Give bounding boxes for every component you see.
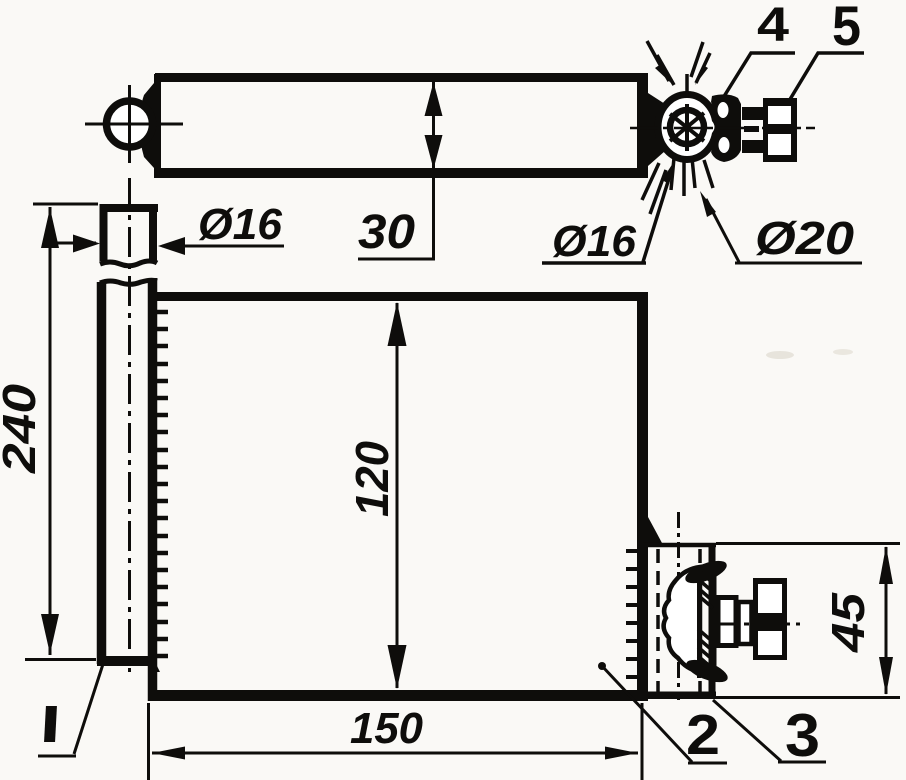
svg-text:2: 2 <box>686 703 720 767</box>
bolt shank outline <box>699 566 715 678</box>
center line through eye and rod <box>128 178 131 672</box>
left eye (lug ring) <box>107 101 153 147</box>
dimension 240 extension lines <box>25 204 98 660</box>
dimension 240 line with arrows <box>41 207 59 655</box>
break squiggle at rod head <box>100 261 157 266</box>
hex nut (front) <box>753 578 787 660</box>
cylinder body (shock absorber, top view) <box>155 73 648 178</box>
radiating finish marks above right eye <box>647 41 710 98</box>
right eye spokes <box>670 104 704 151</box>
part 4 (ball joint bushing) <box>711 94 741 162</box>
part 5 (end nut) <box>763 98 797 162</box>
left eye boss (weld fillet) <box>140 83 154 168</box>
fillet rod to plate <box>148 648 160 672</box>
leader for part 1 <box>38 661 104 756</box>
svg-text:120: 120 <box>346 441 398 517</box>
svg-text:Ø16: Ø16 <box>552 217 637 266</box>
serrated weld edge left (ticks) <box>157 312 168 656</box>
rod (piston rod, side view) <box>97 282 157 664</box>
centerline through nut <box>714 623 800 626</box>
svg-text:3: 3 <box>785 702 820 769</box>
bracket plate (part 2) <box>643 543 716 697</box>
buffer top cap arc <box>682 556 729 588</box>
main plate rectangle <box>148 278 648 701</box>
dimension 30 (vertical double arrow inside cylinder) <box>358 82 443 259</box>
svg-text:30: 30 <box>358 206 415 259</box>
right end boss (weld to eye) <box>648 93 665 166</box>
left eye crosshair centerlines <box>85 85 183 163</box>
leader with arrow for Ø16 (right eye) <box>542 160 675 263</box>
svg-text:Ø16: Ø16 <box>198 200 283 249</box>
leader line part 5 <box>789 53 864 101</box>
buffer bottom cap arc <box>683 655 730 687</box>
svg-text:5: 5 <box>832 0 861 57</box>
washer <box>739 602 752 644</box>
small nut on bolt <box>718 598 736 646</box>
hidden edges (dashed) in plate <box>658 549 700 692</box>
leader for part 2 <box>598 662 727 763</box>
right eye inner ring <box>670 110 704 144</box>
svg-text:150: 150 <box>350 704 424 753</box>
threaded shank between part 4 and nut 5 <box>742 107 765 153</box>
right eye outer ring <box>658 95 716 160</box>
horizontal centerline of right assembly <box>630 127 815 130</box>
bolt centerline <box>677 512 680 700</box>
dimension 120 line with arrows <box>388 302 407 689</box>
bolt shank hatch (top) <box>698 570 713 608</box>
dimension 150 extension lines <box>149 703 643 780</box>
leader line part 4 <box>723 53 795 98</box>
dimension 45 extension lines <box>642 544 900 698</box>
svg-text:240: 240 <box>0 384 45 475</box>
dimension 150 line with arrows <box>152 747 638 760</box>
svg-text:Ø20: Ø20 <box>755 212 854 264</box>
dimension 45 line with arrows <box>879 546 893 695</box>
faint scan smudges <box>766 351 794 359</box>
rod head Ø16 rectangle <box>100 204 158 261</box>
leader for part 3 <box>713 700 826 762</box>
dimension Ø16 arrows (rod head) <box>46 235 284 256</box>
weld fillet above bracket plate <box>648 517 662 543</box>
serrated weld edge right (ticks) <box>626 551 637 694</box>
svg-text:45: 45 <box>822 591 874 653</box>
bolt shank hatch (bottom) <box>698 629 713 676</box>
svg-text:4: 4 <box>757 0 789 52</box>
rubber buffer dome (part 3) <box>664 567 700 672</box>
label 1 <box>44 706 57 742</box>
radiating finish marks below right eye <box>642 158 713 214</box>
leader with arrow for Ø20 <box>700 191 862 263</box>
